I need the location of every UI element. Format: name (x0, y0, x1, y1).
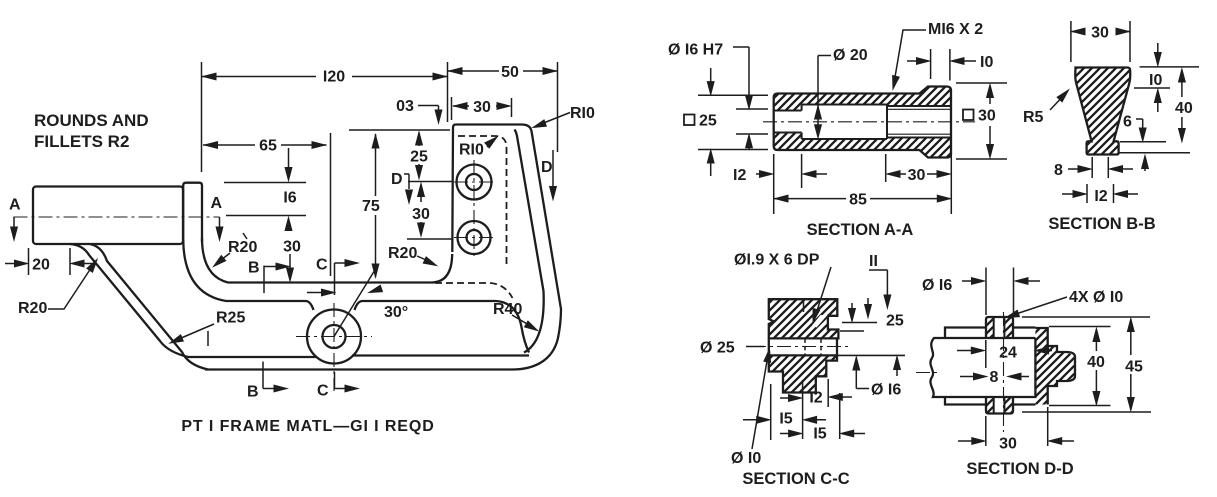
svg-text:R25: R25 (216, 310, 245, 327)
svg-text:03: 03 (396, 98, 414, 115)
svg-text:ØI.9 X 6 DP: ØI.9 X 6 DP (734, 252, 820, 269)
svg-text:8: 8 (990, 369, 999, 386)
svg-text:PT I FRAME MATL—GI I REQD: PT I FRAME MATL—GI I REQD (181, 418, 434, 435)
svg-text:D: D (391, 171, 403, 188)
svg-text:SECTION C-C: SECTION C-C (742, 470, 849, 488)
svg-text:Ø 25: Ø 25 (700, 340, 735, 357)
svg-text:Ø 20: Ø 20 (833, 47, 868, 64)
svg-text:I5: I5 (779, 411, 792, 428)
svg-text:R20: R20 (18, 300, 47, 317)
svg-text:I2: I2 (1094, 188, 1107, 205)
svg-text:Ø I6: Ø I6 (871, 382, 901, 399)
svg-text:30: 30 (283, 239, 301, 256)
svg-text:I20: I20 (323, 69, 345, 86)
svg-text:4X Ø I0: 4X Ø I0 (1069, 289, 1123, 306)
svg-text:R20: R20 (228, 239, 257, 256)
svg-text:SECTION A-A: SECTION A-A (807, 221, 914, 239)
svg-text:A: A (9, 197, 21, 214)
svg-text:RI0: RI0 (570, 105, 595, 122)
svg-text:40: 40 (1175, 100, 1193, 117)
svg-text:R20: R20 (388, 245, 417, 262)
svg-text:30: 30 (1091, 25, 1109, 42)
svg-text:SECTION D-D: SECTION D-D (966, 460, 1073, 478)
svg-text:30: 30 (473, 99, 491, 116)
svg-text:C: C (316, 257, 328, 274)
svg-text:30: 30 (978, 108, 996, 125)
svg-text:A: A (211, 195, 223, 212)
svg-text:B: B (247, 384, 259, 401)
svg-text:I2: I2 (809, 390, 822, 407)
svg-text:45: 45 (1125, 359, 1143, 376)
svg-text:85: 85 (849, 192, 867, 209)
svg-text:30: 30 (412, 206, 430, 223)
svg-text:RI0: RI0 (459, 142, 484, 159)
svg-text:FILLETS R2: FILLETS R2 (34, 132, 129, 151)
svg-text:Ø I6: Ø I6 (922, 277, 952, 294)
svg-text:II: II (869, 253, 878, 270)
svg-text:B: B (248, 260, 260, 277)
svg-text:24: 24 (999, 345, 1017, 362)
svg-text:30: 30 (999, 436, 1017, 453)
svg-text:65: 65 (259, 138, 277, 155)
svg-text:20: 20 (32, 257, 50, 274)
svg-text:R5: R5 (1023, 109, 1044, 126)
svg-text:I5: I5 (813, 426, 826, 443)
svg-text:30: 30 (908, 167, 926, 184)
svg-text:75: 75 (362, 198, 380, 215)
svg-text:I0: I0 (980, 54, 993, 71)
svg-text:I2: I2 (733, 167, 746, 184)
svg-text:SECTION B-B: SECTION B-B (1048, 215, 1155, 233)
svg-text:R40: R40 (493, 301, 522, 318)
svg-text:6: 6 (1123, 114, 1132, 131)
svg-text:40: 40 (1087, 354, 1105, 371)
svg-text:ROUNDS AND: ROUNDS AND (34, 111, 149, 130)
svg-text:8: 8 (1054, 162, 1063, 179)
svg-text:I0: I0 (1149, 72, 1162, 89)
svg-text:Ø I6 H7: Ø I6 H7 (668, 42, 723, 59)
svg-text:C: C (317, 383, 329, 400)
svg-text:30°: 30° (384, 304, 408, 321)
svg-text:MI6 X 2: MI6 X 2 (928, 21, 983, 38)
svg-text:Ø I0: Ø I0 (731, 450, 761, 467)
svg-text:25: 25 (886, 313, 904, 330)
svg-text:25: 25 (699, 113, 717, 130)
svg-text:25: 25 (410, 149, 428, 166)
svg-text:I6: I6 (283, 190, 296, 207)
svg-text:D: D (541, 159, 553, 176)
svg-text:50: 50 (501, 64, 519, 81)
